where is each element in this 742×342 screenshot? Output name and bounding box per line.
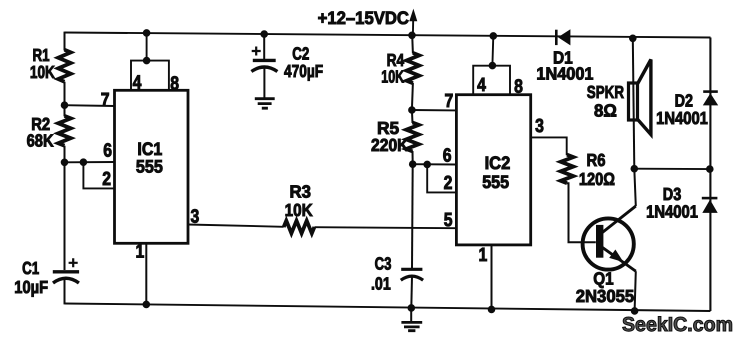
wire IC2 pin 2 bracket <box>427 164 456 192</box>
label C2 value 470uF <box>284 61 323 81</box>
capacitor C1 plus sign <box>69 258 78 267</box>
wire C2 upper stem <box>263 34 265 60</box>
diode D3 cathode bar <box>702 197 718 200</box>
wire IC1 pin 7 <box>65 104 115 107</box>
node IC1 pin1 on bottom rail <box>143 301 150 308</box>
svg-text:3: 3 <box>535 116 544 137</box>
capacitor C1 top plate <box>53 270 79 273</box>
svg-text:4: 4 <box>477 75 486 96</box>
resistor R3 <box>284 221 315 234</box>
power net arrow +12-15VDC <box>409 9 417 36</box>
label D3 part 1N4001 <box>646 202 698 222</box>
label speaker 8 ohm <box>594 101 617 121</box>
pin label 1 (IC1) <box>136 241 145 262</box>
svg-text:1N4001: 1N4001 <box>646 202 698 222</box>
label R2 <box>31 114 50 134</box>
transistor Q1 circle <box>583 218 634 269</box>
resistor R6 <box>561 155 574 184</box>
label R1 <box>33 45 50 65</box>
diode D3 triangle <box>702 200 717 213</box>
svg-text:1: 1 <box>136 241 145 262</box>
label SPKR <box>587 82 624 102</box>
label IC2 <box>485 153 511 173</box>
pin label 7 (IC2) <box>445 91 454 112</box>
pin label 2 (IC1) <box>102 169 111 190</box>
svg-text:+12–15VDC: +12–15VDC <box>318 8 409 28</box>
wire Q1 collector <box>634 169 636 206</box>
node IC2 supply stem on rail <box>490 33 497 40</box>
label R5 value 220K <box>371 135 409 155</box>
svg-text:IC2: IC2 <box>485 153 511 173</box>
svg-text:SPKR: SPKR <box>587 82 624 102</box>
svg-text:120Ω: 120Ω <box>579 169 615 189</box>
wire IC1 pin 3 output <box>188 225 284 227</box>
svg-text:2: 2 <box>102 169 111 190</box>
wire IC1 pins 4-8 stem <box>146 33 148 61</box>
label IC2 part 555 <box>482 172 509 192</box>
label C3 <box>375 254 392 274</box>
wire IC2 pins 4-8 bracket <box>473 66 510 95</box>
label R4 <box>387 50 405 70</box>
wire R3 to IC2 pin 5 <box>314 227 456 228</box>
label C3 value .01 <box>371 274 391 294</box>
svg-text:2N3055: 2N3055 <box>576 286 635 306</box>
svg-text:10K: 10K <box>30 62 55 82</box>
label C2 <box>292 44 309 64</box>
wire left rail top segment <box>64 32 66 51</box>
label D3 <box>663 184 682 204</box>
svg-text:SeekIC.com: SeekIC.com <box>622 314 733 336</box>
svg-text:.01: .01 <box>371 274 391 294</box>
wire IC1 pin 1 <box>145 243 147 304</box>
pin label 1 (IC2) <box>479 245 488 266</box>
label R4 value 10K <box>381 67 404 87</box>
capacitor C3 top plate <box>401 268 422 271</box>
svg-text:10K: 10K <box>381 67 404 87</box>
node IC2 pins 4-8 bracket <box>489 62 496 69</box>
node C2 on +V rail <box>261 31 268 38</box>
transistor Q1 collector lead <box>602 206 636 233</box>
label IC1 <box>137 139 162 159</box>
pin label 6 (IC1) <box>103 141 112 162</box>
wire R5 bottom stem <box>412 151 414 164</box>
svg-text:2: 2 <box>444 173 453 194</box>
label D1 part 1N4001 <box>536 64 593 84</box>
node Q1 emitter on bottom rail <box>631 308 638 315</box>
wire R1-R2 segment <box>64 82 66 117</box>
node IC1 pin2 bracket junction <box>80 159 87 166</box>
capacitor C1 curved plate <box>53 278 79 283</box>
wire C2 lower stem <box>263 67 265 99</box>
svg-text:1: 1 <box>479 245 488 266</box>
diode D1 triangle <box>558 29 570 45</box>
transistor Q1 emitter lead <box>602 247 636 271</box>
label IC1 part 555 <box>136 157 163 177</box>
label D1 <box>553 47 573 67</box>
pin label 8 (IC1) <box>170 74 179 95</box>
svg-text:R6: R6 <box>587 150 606 170</box>
label +12-15VDC <box>318 8 409 28</box>
diode D1 cathode bar <box>555 30 558 45</box>
label D2 part 1N4001 <box>656 108 708 128</box>
capacitor C2 plus sign <box>252 47 261 56</box>
label R3 value 10K <box>285 200 313 220</box>
pin label 4 (IC1) <box>133 73 142 94</box>
wire R4 to pin7 node <box>412 83 413 110</box>
wire R6 to Q1 base <box>567 183 596 242</box>
svg-text:1N4001: 1N4001 <box>656 108 708 128</box>
svg-text:10µF: 10µF <box>14 277 48 297</box>
wire R2 to C1 segment <box>64 146 66 270</box>
speaker SPKR driver box <box>629 83 638 120</box>
svg-text:10K: 10K <box>285 200 313 220</box>
svg-text:3: 3 <box>191 207 200 228</box>
svg-text:1N4001: 1N4001 <box>536 64 593 84</box>
wire C1 to bottom rail <box>64 280 66 304</box>
wire R5 top stem <box>411 110 414 123</box>
transistor Q1 base bar <box>596 225 603 258</box>
wire top +V rail <box>65 33 711 38</box>
label D2 <box>675 91 694 111</box>
label R6 value 120ohm <box>579 169 615 189</box>
capacitor C2 curved plate <box>251 67 277 72</box>
pin label 3 (IC1) <box>191 207 200 228</box>
resistor R4 <box>407 53 420 83</box>
wire Q1 emitter to bottom rail <box>635 271 636 311</box>
pin label 3 (IC2) <box>535 116 544 137</box>
node speaker bottom junction <box>631 165 638 172</box>
pin label 7 (IC1) <box>101 90 110 111</box>
op-amp timer IC1 box <box>115 90 189 243</box>
label C1 <box>22 258 39 278</box>
resistor R5 <box>406 123 419 152</box>
resistor R2 <box>58 116 71 146</box>
svg-text:7: 7 <box>101 90 110 111</box>
svg-text:220K: 220K <box>371 135 409 155</box>
label Q1 <box>593 268 614 288</box>
timer IC2 box <box>456 95 530 245</box>
svg-text:555: 555 <box>482 172 509 192</box>
node R2 bottom junction (IC1 pin 6) <box>61 159 68 166</box>
node power entry on rail <box>409 32 416 39</box>
node IC2 pin1 on bottom rail <box>488 306 495 313</box>
wire IC2 pins 4-8 stem <box>491 36 494 66</box>
speaker SPKR cone <box>638 60 651 135</box>
wire speaker bottom to right rail <box>634 168 710 170</box>
svg-text:6: 6 <box>443 146 452 167</box>
wire IC2 pin 1 <box>491 245 493 310</box>
svg-text:555: 555 <box>136 157 163 177</box>
wire IC1 pin 2 bracket <box>83 162 114 188</box>
svg-text:6: 6 <box>103 141 112 162</box>
label R2 value 68K <box>27 131 54 151</box>
capacitor C2 top plate <box>253 59 276 62</box>
wire IC2 pin 3 <box>531 137 567 155</box>
resistor R1 <box>58 50 71 82</box>
pin label 4 (IC2) <box>477 75 486 96</box>
wire IC1 pins 4-8 bracket <box>131 61 169 91</box>
label R3 <box>290 182 312 202</box>
svg-text:R3: R3 <box>290 182 312 202</box>
wire IC2 pin 6 <box>413 163 457 165</box>
wire right vertical rail <box>709 38 711 312</box>
pin label 8 (IC2) <box>514 77 523 98</box>
pin label 6 (IC2) <box>443 146 452 167</box>
node C3/ground on bottom rail <box>408 305 415 312</box>
node R4-R5 junction (IC2 pin 7) <box>409 107 416 114</box>
wire bottom ground rail <box>65 304 711 312</box>
capacitor C3 curved plate <box>401 276 423 280</box>
wire C3 to bottom rail <box>410 277 413 308</box>
wire IC1 pin 6 <box>65 161 115 163</box>
node IC1 supply stem on rail <box>143 30 150 37</box>
wire pin6 node down to C3 <box>411 164 414 268</box>
svg-text:68K: 68K <box>27 131 54 151</box>
node IC2 pin2 bracket junction <box>424 161 431 168</box>
svg-text:C1: C1 <box>22 258 39 278</box>
diode D2 triangle <box>703 93 718 105</box>
transistor Q1 emitter arrowhead <box>609 250 623 263</box>
label R1 value 10K <box>30 62 55 82</box>
diode D2 cathode bar <box>703 90 718 93</box>
label R5 <box>377 118 399 138</box>
svg-text:7: 7 <box>445 91 454 112</box>
label Q1 part 2N3055 <box>576 286 635 306</box>
ground symbol at C2 <box>255 99 275 109</box>
node R5 bottom junction (IC2 pin 6) <box>409 161 416 168</box>
node R1-R2 junction (IC1 pin 7) <box>61 102 68 109</box>
node D2-D3 junction on right rail <box>707 166 714 173</box>
pin label 2 (IC2) <box>444 173 453 194</box>
label R6 <box>587 150 606 170</box>
svg-text:470µF: 470µF <box>284 61 323 81</box>
node speaker top on rail <box>630 35 637 42</box>
watermark SeekIC.com <box>622 314 733 336</box>
svg-text:5: 5 <box>444 210 453 231</box>
wire rail to R4 <box>411 35 414 53</box>
label C1 value 10uF <box>14 277 48 297</box>
wire IC2 pin 7 <box>412 109 457 111</box>
pin label 5 (IC2) <box>444 210 453 231</box>
wire speaker feed <box>633 38 635 168</box>
node IC1 pins 4-8 bracket <box>143 57 150 64</box>
svg-text:C3: C3 <box>375 254 392 274</box>
svg-text:8Ω: 8Ω <box>594 101 617 121</box>
ground symbol at bottom rail <box>401 308 422 331</box>
